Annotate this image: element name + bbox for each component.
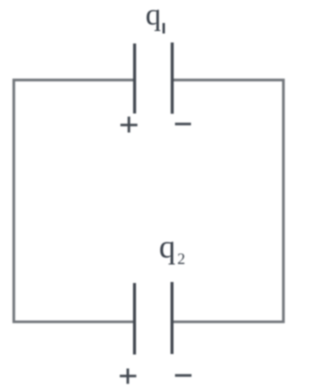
svg-text:q: q	[146, 0, 162, 32]
svg-text:2: 2	[177, 251, 185, 268]
svg-text:q: q	[159, 230, 176, 266]
